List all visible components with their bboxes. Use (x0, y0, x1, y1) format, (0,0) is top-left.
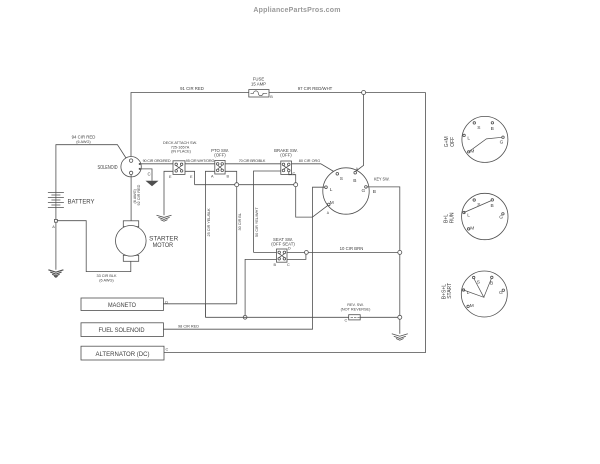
battery (48, 193, 95, 208)
svg-text:E: E (190, 175, 193, 179)
svg-text:(OFF SEAT): (OFF SEAT) (271, 242, 295, 247)
wire 91 CIR RED top bus (131, 93, 249, 159)
svg-text:SOLENOID: SOLENOID (98, 165, 118, 171)
svg-text:A: A (52, 225, 55, 229)
svg-text:B+L: B+L (444, 214, 450, 223)
wire 33 CIR BLK node A to starter (57, 221, 131, 272)
svg-text:B: B (373, 189, 376, 195)
seat switch (271, 237, 295, 267)
svg-text:L: L (467, 213, 470, 219)
svg-text:(6 AWG): (6 AWG) (133, 188, 137, 203)
starter motor (116, 221, 179, 261)
wire PTO A vertical corner to rev bus (204, 304, 206, 318)
wire seat C to node (287, 254, 306, 259)
wire PTO A down (205, 171, 214, 317)
svg-text:95 CIR WHT/ORG: 95 CIR WHT/ORG (186, 159, 215, 163)
svg-text:FUEL SOLENOID: FUEL SOLENOID (99, 328, 146, 334)
svg-text:80 CIR ORG: 80 CIR ORG (299, 159, 321, 163)
brake switch (274, 148, 298, 176)
junction node rev bus right (398, 315, 402, 319)
wire 80 CIR ORG brake to key S (292, 164, 337, 173)
svg-text:ALTERNATOR (DC): ALTERNATOR (DC) (96, 352, 150, 358)
wire M diagonal (313, 205, 329, 217)
wire key G right and down (367, 187, 400, 251)
svg-text:M: M (470, 225, 474, 231)
svg-text:G: G (499, 290, 503, 296)
svg-text:94 CIR RED: 94 CIR RED (72, 135, 96, 140)
key position circle RUN (444, 193, 508, 239)
svg-text:START: START (447, 283, 453, 299)
wire solenoid C to ground (141, 169, 152, 181)
junction node 10 CIR BRN right (398, 250, 402, 254)
svg-text:15 AMP: 15 AMP (251, 82, 266, 87)
svg-text:70 CIR BRO/BLK: 70 CIR BRO/BLK (239, 159, 266, 163)
svg-text:AppliancePartsPros.com: AppliancePartsPros.com (253, 7, 340, 14)
fuel solenoid box (81, 323, 163, 337)
svg-text:C: C (166, 348, 169, 352)
solenoid (98, 157, 142, 177)
wire battery to node A (55, 208, 57, 220)
svg-text:REV. SW.: REV. SW. (347, 303, 364, 307)
reverse switch (341, 303, 371, 323)
svg-text:S: S (340, 176, 343, 182)
svg-text:S: S (477, 125, 480, 131)
svg-text:(6 AWG): (6 AWG) (99, 278, 114, 282)
svg-text:(NOT REVERSE): (NOT REVERSE) (341, 308, 371, 312)
svg-text:(OFF): (OFF) (280, 152, 292, 157)
wire vertical from bus node to magneto wire (236, 187, 238, 304)
svg-text:10 CIR BRN: 10 CIR BRN (340, 246, 364, 251)
PTO switch (211, 148, 230, 179)
svg-text:G: G (499, 215, 503, 221)
wire 90 CIR ORG/RED solenoid to deck switch (141, 163, 173, 165)
battery feed wire 94 CIR RED (56, 145, 126, 193)
junction node bus right (294, 183, 298, 187)
svg-text:C: C (287, 263, 290, 267)
svg-text:M: M (330, 200, 334, 206)
alternator box (81, 346, 169, 360)
wire magneto D (163, 303, 236, 305)
svg-text:B: B (353, 178, 356, 184)
label 92 CIR RED (6 AWG) rotated (133, 184, 141, 205)
wire seat B left down to rev bus (245, 259, 276, 315)
wire key B up to top bus (355, 95, 363, 172)
svg-text:90 CIR ORG/RED: 90 CIR ORG/RED (143, 159, 171, 163)
wire key L to fuel solenoid vertical (163, 187, 324, 329)
svg-text:D: D (288, 247, 291, 251)
svg-text:L: L (467, 136, 470, 142)
svg-text:33 CIR BLK: 33 CIR BLK (96, 274, 117, 278)
wire 95 CIR WHT/ORG deck to PTO (185, 163, 215, 165)
fuse F1 15 AMP (249, 77, 273, 100)
wire rev bus (205, 316, 247, 318)
svg-text:M: M (470, 303, 474, 309)
svg-text:B: B (270, 95, 273, 99)
junction node seat right (305, 251, 309, 255)
node A (55, 219, 58, 222)
ground right (392, 334, 408, 340)
wire node A to ground (55, 222, 57, 270)
wire right side down to alternator (164, 93, 426, 353)
svg-text:98 CIR RED: 98 CIR RED (178, 324, 199, 328)
deck attach switch (163, 141, 197, 179)
wire 10 CIR BRN seat bus (254, 251, 277, 253)
svg-text:B: B (491, 203, 494, 209)
ground battery (48, 270, 63, 277)
svg-text:KEY SW.: KEY SW. (374, 177, 390, 182)
wire 97 CIR RED/WHT (269, 92, 426, 94)
wire switch bus (195, 184, 294, 186)
svg-text:L: L (330, 187, 333, 193)
svg-text:30 CIR BL: 30 CIR BL (238, 213, 242, 231)
svg-text:91 CIR RED: 91 CIR RED (180, 86, 204, 91)
svg-text:RUN: RUN (450, 212, 456, 223)
svg-text:S: S (477, 202, 480, 208)
svg-text:G+M: G+M (444, 136, 450, 147)
svg-text:BATTERY: BATTERY (68, 199, 96, 206)
wire 70 CIR BRO/BLK PTO to brake (225, 163, 281, 165)
junction node bus-PTO B (235, 183, 239, 187)
junction node rev bus left (243, 315, 247, 319)
svg-text:B+S+L: B+S+L (442, 284, 448, 300)
svg-text:G: G (500, 139, 504, 145)
svg-text:OFF: OFF (450, 137, 456, 147)
svg-text:A: A (327, 211, 330, 215)
key position circle OFF (444, 116, 508, 162)
svg-text:(OFF): (OFF) (214, 152, 226, 157)
svg-text:MOTOR: MOTOR (153, 242, 174, 249)
ground solenoid C (146, 181, 159, 187)
svg-text:(6 AWG): (6 AWG) (76, 140, 91, 144)
magneto box (81, 298, 168, 311)
wire brake A down to 50 CIR YEL/WHT (254, 171, 281, 252)
svg-text:A: A (211, 175, 214, 179)
wire brake C down to bus node (289, 172, 296, 183)
wire deck E right down to bus (185, 171, 195, 184)
wire deck switch E to ground (164, 171, 173, 215)
wire key G vertical through nodes to ground (399, 254, 401, 315)
svg-text:(IN PLACE): (IN PLACE) (171, 150, 192, 154)
wire 92 CIR RED solenoid to starter (130, 175, 132, 221)
wire PTO B down to bus node (225, 171, 237, 182)
svg-text:C: C (345, 319, 348, 323)
svg-text:MAGNETO: MAGNETO (108, 302, 136, 309)
ground deck switch (157, 215, 172, 221)
svg-text:B: B (227, 175, 230, 179)
svg-text:50 CIR YEL/WHT: 50 CIR YEL/WHT (255, 207, 259, 237)
svg-text:E: E (169, 175, 172, 179)
key position circle START (442, 271, 508, 317)
svg-text:97 CIR RED/WHT: 97 CIR RED/WHT (298, 86, 333, 91)
junction node on top bus (362, 91, 366, 95)
svg-text:25 CIR YEL/BLK: 25 CIR YEL/BLK (207, 208, 211, 237)
svg-text:92 CIR RED: 92 CIR RED (137, 184, 141, 205)
svg-text:G: G (362, 188, 366, 194)
key switch (323, 167, 390, 215)
svg-text:B: B (491, 126, 494, 132)
svg-text:B: B (274, 263, 277, 267)
svg-text:C: C (148, 172, 151, 177)
wire key M link to bus node (296, 187, 313, 217)
